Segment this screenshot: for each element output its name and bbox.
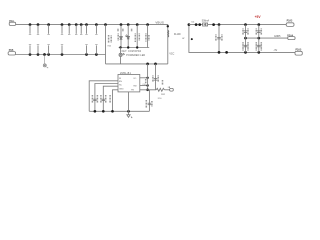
svg-text:- 3V: - 3V xyxy=(273,50,278,52)
capacitor C6 xyxy=(75,23,78,34)
wire U1 pin4 left xyxy=(113,90,119,112)
node dot mid x=191.8 xyxy=(182,38,193,40)
connector P1A (left top) xyxy=(9,20,16,26)
connector P2A3 (right top) xyxy=(286,19,294,26)
connector P1B (left bottom) xyxy=(8,49,16,55)
capacitor C8 lower stub xyxy=(85,45,88,56)
svg-text:NC: NC xyxy=(119,84,123,86)
capacitor C11 on x=94.9 xyxy=(92,95,97,103)
connector P2A5 (right bottom) xyxy=(295,49,302,55)
LED DS1 power indicator xyxy=(119,48,125,64)
capacitor C8 xyxy=(85,23,88,34)
capacitor C10 column x=147.6 xyxy=(146,23,149,47)
node junction dots y=47.5 xyxy=(119,46,138,48)
wire bottom bus xyxy=(16,54,106,56)
resistor R6 column x=137.2 xyxy=(135,23,139,47)
wire right block vertical x=188.9 down to -3V rail xyxy=(189,25,295,53)
wire U1 pin1 left xyxy=(89,81,118,112)
svg-text:500mA: 500mA xyxy=(202,20,210,23)
wire VCC y=63.9 xyxy=(106,63,168,65)
capacitor C7 xyxy=(80,23,83,34)
node dots on -3V wire xyxy=(218,51,228,54)
capacitor C5 xyxy=(68,23,71,34)
capacitor C2 xyxy=(37,23,40,34)
svg-text:P2A3: P2A3 xyxy=(287,19,293,22)
wire VBUS top bus xyxy=(16,25,168,64)
wire U1 pin2 left xyxy=(95,84,118,112)
capacitor C2 lower stub xyxy=(37,45,40,56)
capacitor C1 lower stub xyxy=(29,45,32,56)
capacitor C9 lower stub xyxy=(95,45,98,56)
connector P2A4 (right mid) xyxy=(287,34,295,39)
capacitor C16 x=245.5 top xyxy=(243,25,248,40)
svg-text:R40: R40 xyxy=(108,45,111,47)
svg-text:W: W xyxy=(182,38,185,40)
resistor R7 on x=112.5 xyxy=(109,95,111,103)
capacitor C17 x=258.8 top xyxy=(256,25,261,40)
LED D3 column x=128.2 xyxy=(125,23,131,47)
svg-text:D4: D4 xyxy=(192,22,196,24)
capacitor C3 xyxy=(47,23,50,34)
node junctions on VCC wire xyxy=(146,63,157,66)
op IC U1 regulator box xyxy=(118,72,140,92)
wire right top +5V y=24.6 xyxy=(189,24,286,26)
svg-text:2R2: 2R2 xyxy=(161,94,166,96)
capacitor C3 lower stub xyxy=(47,45,50,56)
resistor R4 on vertical x=105.5 with value label xyxy=(104,23,111,64)
capacitor C13 on x=149.4 xyxy=(146,90,152,112)
diode D2 zener column x=121 xyxy=(118,23,123,47)
svg-text:EN: EN xyxy=(119,81,122,83)
svg-text:FL100: FL100 xyxy=(174,34,181,36)
wire stub node at x=44.5 xyxy=(43,53,48,68)
node dot x=188.9 top xyxy=(188,23,191,26)
capacitor C15 x=219 xyxy=(216,25,222,53)
ground symbol xyxy=(127,111,132,118)
svg-text:POWERED LED: POWERED LED xyxy=(126,54,145,57)
resistor R11 zigzag on output y=89.8 xyxy=(140,87,170,100)
inductor FL1 ferrite on x=167.8 xyxy=(167,25,182,37)
wire ground rail y=111.3 xyxy=(89,110,149,112)
wire U1 pin3 left xyxy=(103,86,118,111)
svg-text:VBUS: VBUS xyxy=(155,21,164,25)
svg-text:SW: SW xyxy=(133,85,136,87)
svg-text:GND: GND xyxy=(119,88,124,90)
wire U1 right pin top y=77.8 xyxy=(140,77,149,79)
svg-text:+5V: +5V xyxy=(255,15,262,19)
svg-text:VCC: VCC xyxy=(169,54,174,56)
capacitor C19 x=258.8 bottom xyxy=(256,38,261,54)
capacitor C1 xyxy=(29,23,32,34)
node dots on +5V wire xyxy=(195,23,260,26)
capacitor C18 x=245.5 bottom xyxy=(243,38,248,54)
svg-text:VO: VO xyxy=(133,78,136,80)
capacitor C12 on x=103.3 xyxy=(101,95,106,103)
node rail junction dots xyxy=(94,110,130,113)
svg-text:GND5: GND5 xyxy=(274,36,281,38)
capacitor C14 on x=155.5 xyxy=(153,64,163,90)
capacitor C4 xyxy=(61,23,64,34)
wire vertical x=147.6 xyxy=(146,64,149,91)
wire mid y=47.5 xyxy=(119,47,150,49)
capacitor C4 lower stub xyxy=(61,45,64,56)
svg-text:KEY: COM DPD4: KEY: COM DPD4 xyxy=(122,51,142,53)
wire GND mid y=38.1 xyxy=(246,37,288,39)
fuse F1 xyxy=(192,20,210,27)
capacitor C9 xyxy=(95,23,98,34)
wire U1 right pin y=85.5 xyxy=(140,84,149,87)
svg-text:F50: F50 xyxy=(158,98,162,100)
connector output stub xyxy=(170,88,174,91)
wire U1 GND down x=128.5 xyxy=(128,92,130,111)
